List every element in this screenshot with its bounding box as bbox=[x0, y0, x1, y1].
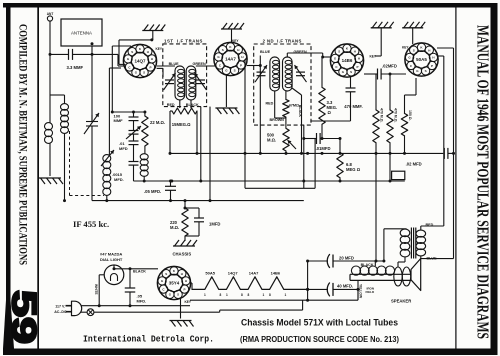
svg-text:ANTENNA: ANTENNA bbox=[71, 31, 92, 36]
svg-text:CHASSIS: CHASSIS bbox=[173, 252, 192, 257]
svg-text:47MΩ.: 47MΩ. bbox=[289, 103, 301, 107]
svg-text:BLACK: BLACK bbox=[186, 103, 199, 107]
svg-text:35Y4: 35Y4 bbox=[169, 281, 180, 286]
svg-text:BLACK: BLACK bbox=[361, 263, 374, 267]
svg-text:BLUE: BLUE bbox=[260, 50, 271, 54]
svg-text:(RMA PRODUCTION SOURCE CODE No: (RMA PRODUCTION SOURCE CODE No. 213) bbox=[240, 335, 399, 344]
svg-text:H: H bbox=[354, 50, 356, 54]
svg-text:.02 MFD: .02 MFD bbox=[406, 162, 422, 167]
svg-text:59: 59 bbox=[5, 290, 43, 344]
svg-text:S: S bbox=[234, 69, 236, 73]
svg-text:S: S bbox=[131, 50, 133, 54]
svg-text:RED: RED bbox=[167, 103, 175, 107]
svg-text:BLUE: BLUE bbox=[169, 62, 180, 66]
svg-text:H: H bbox=[428, 49, 430, 53]
svg-text:20 MFD: 20 MFD bbox=[339, 255, 354, 260]
svg-text:470 M.Ω.: 470 M.Ω. bbox=[380, 108, 384, 123]
svg-text:MFD: MFD bbox=[119, 146, 128, 151]
svg-text:1MFD: 1MFD bbox=[209, 222, 220, 227]
svg-text:P: P bbox=[183, 287, 185, 291]
svg-text:P: P bbox=[356, 65, 358, 69]
svg-text:14Q7: 14Q7 bbox=[228, 271, 239, 276]
svg-text:S: S bbox=[143, 71, 145, 75]
svg-text:S: S bbox=[413, 49, 415, 53]
svg-text:IF 455 kc.: IF 455 kc. bbox=[73, 219, 109, 229]
svg-text:H: H bbox=[358, 57, 360, 61]
svg-text:50A5: 50A5 bbox=[416, 57, 427, 62]
svg-text:.02MFD: .02MFD bbox=[382, 63, 397, 68]
svg-text:470 M.Ω.: 470 M.Ω. bbox=[394, 108, 398, 123]
svg-text:WHITE: WHITE bbox=[94, 284, 98, 295]
svg-text:S: S bbox=[177, 293, 179, 297]
svg-text:H: H bbox=[237, 48, 239, 52]
svg-text:22 M.Ω.: 22 M.Ω. bbox=[150, 120, 165, 125]
svg-text:KEY: KEY bbox=[232, 39, 239, 43]
svg-text:MMF: MMF bbox=[114, 118, 124, 123]
svg-text:8: 8 bbox=[269, 293, 271, 297]
svg-text:14B6: 14B6 bbox=[271, 271, 281, 276]
svg-text:8: 8 bbox=[248, 293, 250, 297]
svg-text:14B6: 14B6 bbox=[342, 58, 353, 63]
svg-text:P: P bbox=[431, 64, 433, 68]
svg-text:P: P bbox=[240, 63, 242, 67]
svg-text:BROWN: BROWN bbox=[270, 118, 285, 122]
svg-text:H: H bbox=[241, 55, 243, 59]
svg-text:S: S bbox=[165, 272, 167, 276]
svg-text:RED: RED bbox=[266, 102, 274, 106]
svg-text:117 V.: 117 V. bbox=[55, 305, 65, 309]
svg-text:P: P bbox=[149, 65, 151, 69]
svg-text:MFD.: MFD. bbox=[137, 298, 147, 303]
svg-text:S: S bbox=[425, 69, 427, 73]
svg-text:DIAL LIGHT: DIAL LIGHT bbox=[100, 257, 123, 262]
svg-text:AC–DC: AC–DC bbox=[54, 310, 67, 314]
svg-text:H: H bbox=[151, 57, 153, 61]
svg-text:M.Ω.: M.Ω. bbox=[267, 138, 276, 143]
svg-text:50A5: 50A5 bbox=[205, 271, 215, 276]
svg-text:MEG Ω: MEG Ω bbox=[346, 167, 361, 172]
svg-text:8: 8 bbox=[241, 293, 243, 297]
svg-text:H: H bbox=[185, 279, 187, 283]
svg-text:FIELD: FIELD bbox=[366, 290, 375, 294]
svg-text:H: H bbox=[181, 272, 183, 276]
svg-text:1: 1 bbox=[285, 293, 287, 297]
svg-text:M.Ω.: M.Ω. bbox=[170, 225, 179, 230]
svg-text:H: H bbox=[147, 50, 149, 54]
svg-text:MANUAL OF 1946 MOST POPULAR SE: MANUAL OF 1946 MOST POPULAR SERVICE DIAG… bbox=[473, 25, 492, 339]
svg-text:#47 MAZDA: #47 MAZDA bbox=[100, 252, 122, 257]
svg-text:KEY: KEY bbox=[156, 47, 163, 51]
svg-text:SPEAKER: SPEAKER bbox=[391, 299, 411, 304]
svg-text:H: H bbox=[432, 56, 434, 60]
svg-text:8: 8 bbox=[220, 293, 222, 297]
svg-text:Chassis Model 571X with Loctal: Chassis Model 571X with Loctal Tubes bbox=[241, 318, 398, 328]
svg-text:40 MFD.: 40 MFD. bbox=[337, 284, 353, 289]
svg-text:S: S bbox=[338, 50, 340, 54]
svg-text:1: 1 bbox=[263, 293, 265, 297]
svg-text:470 MMF.: 470 MMF. bbox=[344, 104, 362, 109]
svg-text:14A7: 14A7 bbox=[225, 57, 236, 62]
svg-text:1ST I.F TRANS: 1ST I.F TRANS bbox=[164, 39, 203, 44]
svg-text:.01MFD: .01MFD bbox=[316, 146, 331, 151]
svg-text:GREEN: GREEN bbox=[193, 62, 206, 66]
svg-text:2 ND I.F TRANS: 2 ND I.F TRANS bbox=[263, 39, 302, 44]
svg-text:S: S bbox=[350, 70, 352, 74]
svg-text:14Q7: 14Q7 bbox=[134, 59, 146, 64]
svg-text:BLACK: BLACK bbox=[133, 269, 146, 273]
svg-text:MFD.: MFD. bbox=[114, 177, 124, 182]
svg-text:15MEG.Ω: 15MEG.Ω bbox=[172, 122, 191, 127]
svg-text:KEY: KEY bbox=[402, 46, 409, 50]
svg-text:1: 1 bbox=[204, 293, 206, 297]
svg-text:S: S bbox=[222, 48, 224, 52]
svg-text:150 Ω.: 150 Ω. bbox=[408, 110, 412, 121]
svg-text:International Detrola Corp.: International Detrola Corp. bbox=[83, 334, 214, 345]
svg-text:14A7: 14A7 bbox=[249, 271, 259, 276]
svg-text:COMPILED BY M. N. BEITMAN, SUP: COMPILED BY M. N. BEITMAN, SUPREME PUBLI… bbox=[17, 24, 30, 265]
svg-text:3.3 MMF: 3.3 MMF bbox=[67, 65, 84, 70]
svg-text:YELLOW: YELLOW bbox=[359, 284, 363, 299]
svg-text:.05 MFD.: .05 MFD. bbox=[144, 189, 161, 194]
svg-text:1: 1 bbox=[226, 293, 228, 297]
